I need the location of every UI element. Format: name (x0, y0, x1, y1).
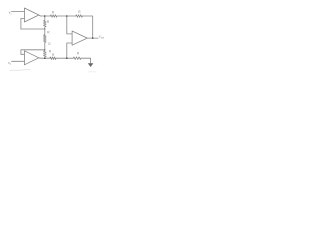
wire A2 feedback vertical (20, 50, 22, 55)
junction chain top node (44, 28, 45, 29)
wire bottom rail (56, 57, 73, 59)
svg-text:G: G (48, 42, 51, 46)
wire A1 feedback vertical (20, 19, 22, 30)
svg-text:out: out (101, 36, 105, 39)
resistor R top horizontal (50, 15, 57, 18)
ghost smudge bottom-right (88, 71, 96, 73)
svg-text:R: R (78, 10, 81, 14)
wire A2 minus-node rail (21, 49, 45, 51)
wire A1 minus-node rail (21, 28, 45, 30)
svg-text:R: R (52, 53, 55, 57)
junction node a (44, 15, 46, 17)
wire v2 input to A2 non-inverting input (12, 60, 25, 62)
svg-text:R: R (77, 52, 80, 56)
ghost caption smudge bottom-left (10, 70, 30, 71)
resistor R bottom horizontal (50, 57, 56, 60)
svg-text:2: 2 (10, 64, 12, 66)
svg-text:R: R (47, 20, 50, 24)
ground (88, 63, 94, 67)
op-amp A1 (24, 8, 38, 22)
op-amp A3 (72, 31, 87, 45)
junction A3 feedback output (92, 37, 94, 39)
resistor R chain top (44, 16, 47, 29)
wire A2 inverting input stub (21, 53, 25, 55)
wire A1 inverting input stub (21, 18, 25, 20)
junction node b (44, 57, 46, 59)
junction chain bottom node (44, 49, 45, 50)
resistor R chain bottom (44, 50, 47, 58)
wire A2 output to node b (39, 57, 50, 59)
wire top rail (57, 15, 76, 17)
resistor R_gain chain middle (44, 29, 47, 50)
junction A3 plus rail (66, 57, 68, 59)
wire A3 output (87, 37, 98, 39)
svg-text:1: 1 (10, 13, 12, 15)
wire A3 inverting input drop (67, 16, 72, 34)
wire v1 input to A1 non-inverting input (12, 11, 25, 13)
svg-text:R: R (52, 11, 55, 15)
wire to ground (81, 58, 91, 63)
svg-text:R: R (47, 30, 50, 34)
resistor R feedback of A3 (76, 15, 83, 18)
junction A3 minus rail (66, 15, 68, 17)
wire A1 output to node a (39, 15, 51, 16)
op-amp A2 (24, 51, 38, 65)
resistor R ground leg (73, 57, 81, 60)
wire A3 feedback corner (82, 16, 92, 38)
wire A3 non-inverting input riser (67, 43, 72, 58)
